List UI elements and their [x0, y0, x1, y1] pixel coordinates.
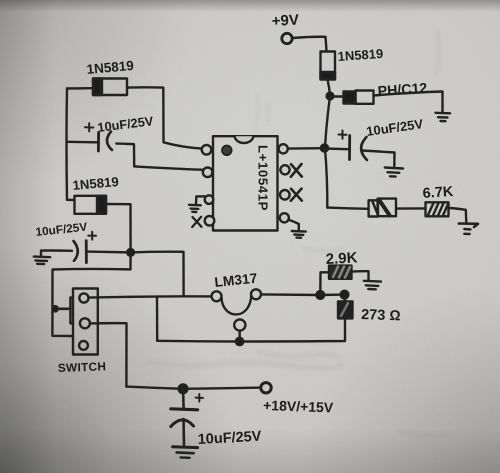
- node B junction: [321, 144, 328, 151]
- IC U1 LT1054IP body: [213, 136, 278, 230]
- wire switch top pin to node D: [89, 296, 184, 297]
- svg-text:+18V/+15V: +18V/+15V: [263, 397, 334, 415]
- wire R2 right to ground: [352, 271, 369, 279]
- label 10uF/25V (C4): [197, 429, 262, 448]
- terminal +9V: [282, 33, 292, 43]
- label 1N5819 (D5): [72, 174, 119, 193]
- wire node C to node D: [131, 252, 184, 297]
- ground (pin 3): [189, 196, 205, 212]
- label 10uF/25V (C3): [35, 220, 88, 239]
- resistor R2 2.9K: [329, 266, 352, 279]
- pin 8 of U1: [279, 144, 288, 153]
- bottom output rail wire: [126, 387, 260, 389]
- svg-text:SWITCH: SWITCH: [58, 359, 107, 375]
- wire D5 left: [67, 199, 75, 202]
- label LM317: [214, 271, 259, 290]
- wire switch middle pin to bottom rail: [90, 323, 127, 386]
- label 2.9K: [325, 249, 358, 268]
- diode D4: [369, 199, 396, 217]
- X mark pin 4: [192, 217, 201, 227]
- regulator U2 LM317: [212, 289, 262, 330]
- wire R2 left to node G: [320, 272, 329, 295]
- node A junction: [327, 93, 334, 100]
- label 273ohm: [361, 307, 401, 324]
- node C junction: [127, 249, 134, 256]
- wire PH/C12 to ground: [374, 92, 443, 113]
- svg-text:2.9K: 2.9K: [325, 249, 358, 268]
- diode D2 PH/C12: [344, 91, 374, 104]
- bottom adj rail wire: [157, 319, 345, 342]
- ghost bleed-through marks: [150, 32, 448, 435]
- ground (C4): [173, 447, 198, 458]
- pin 7 of U1: [280, 165, 289, 174]
- wire node B to capacitor C2: [325, 147, 348, 150]
- label 10uF/25V (C1): [97, 113, 155, 135]
- wire node E riser: [156, 297, 159, 341]
- wire D1 to node A: [328, 80, 331, 97]
- wire node A to node B: [325, 96, 330, 148]
- label SWITCH: [58, 359, 107, 375]
- wire LM317 out to node G: [261, 293, 345, 296]
- svg-text:+9V: +9V: [271, 12, 299, 30]
- svg-text:6.7K: 6.7K: [422, 184, 454, 202]
- pin 6 of U1: [280, 190, 290, 200]
- label +9V: [271, 12, 299, 30]
- node F junction: [236, 338, 243, 345]
- ground (C3): [34, 251, 50, 264]
- ground (R1): [459, 224, 478, 235]
- label +18V/+15V: [263, 397, 334, 415]
- node G junction: [316, 291, 324, 299]
- ground (R2): [364, 281, 381, 290]
- wire to diode D4: [327, 208, 368, 209]
- terminal +18V: [261, 383, 271, 393]
- left rail wire: [65, 89, 68, 200]
- ground (C2): [385, 168, 403, 177]
- pin 3 of U1: [205, 195, 214, 204]
- switch SW1: [53, 289, 98, 355]
- capacitor C1 10uF/25V: [85, 123, 112, 151]
- label 1N5819 (D3): [86, 58, 134, 77]
- wire node C to switch bottom pin: [52, 252, 130, 336]
- pin 5 of U1: [280, 213, 289, 222]
- svg-text:273 Ω: 273 Ω: [361, 307, 401, 324]
- label PH/C12: [377, 81, 428, 100]
- svg-text:1N5819: 1N5819: [337, 46, 383, 64]
- node H junction: [341, 291, 349, 299]
- wire C2 to ground: [362, 151, 395, 167]
- pin 4 of U1: [205, 216, 215, 226]
- wire D3 right to pin 1 of U1: [127, 87, 202, 148]
- node D to LM317 input: [184, 295, 212, 298]
- wire C1 left: [67, 141, 97, 144]
- diode D3 1N5819 (top left): [93, 79, 127, 96]
- pin 1 of U1: [202, 145, 212, 155]
- pin 1 marker dot: [222, 146, 232, 156]
- ground (PH/C12): [436, 113, 451, 121]
- wire R1 to ground: [449, 208, 467, 223]
- wire C1 right to pin 2 of U1: [116, 144, 204, 170]
- label LT1054IP: [256, 145, 271, 211]
- pin 2 of U1: [203, 168, 213, 178]
- wire node H to R3: [343, 295, 346, 302]
- capacitor C3 10uF/25V: [41, 232, 96, 263]
- label 1N5819 (D1): [337, 46, 383, 64]
- resistor R3 273ohm: [338, 301, 353, 318]
- diode D1 1N5819 (vertical): [321, 52, 336, 80]
- X mark pin 7: [291, 164, 302, 177]
- X mark pin 6: [291, 189, 302, 201]
- wire node B to pin 8 of U1: [288, 147, 325, 150]
- wire D3 left to left rail: [67, 87, 93, 90]
- resistor R1 6.7K: [426, 202, 449, 216]
- capacitor C2 10uF/25V: [339, 131, 368, 161]
- wire node B down to 6.7K branch: [325, 149, 327, 208]
- ground (pin 5): [288, 220, 306, 238]
- wire node A to PH/C12: [333, 95, 344, 97]
- wire D4 to resistor R1: [396, 207, 426, 210]
- capacitor C4 10uF/25V: [171, 389, 203, 446]
- wire C3 to node C: [87, 250, 131, 253]
- wire +9V to top of D1: [293, 37, 327, 51]
- label 10uF/25V (C2): [365, 116, 424, 139]
- svg-text:10uF/25V: 10uF/25V: [197, 429, 262, 448]
- node I junction: [179, 384, 188, 393]
- svg-text:L+10541P: L+10541P: [256, 145, 271, 211]
- label 6.7K: [422, 184, 454, 202]
- wire D5 right down to node C: [106, 204, 131, 252]
- wire LM317 adj pin down: [238, 331, 240, 342]
- diode D5 1N5819 (second left): [75, 196, 107, 214]
